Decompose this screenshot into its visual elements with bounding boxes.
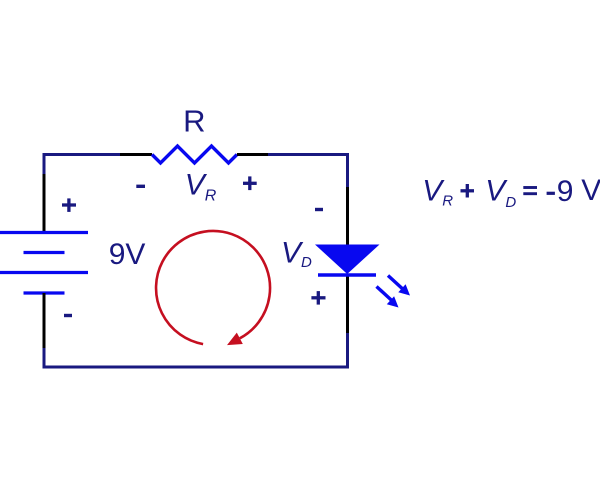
plus sign LED bottom bbox=[311, 291, 325, 305]
svg-text:9V: 9V bbox=[109, 238, 146, 271]
wire bottom navy with corners bbox=[44, 332, 348, 367]
equation plus sign bbox=[461, 184, 475, 198]
battery B1 short plate bottom bbox=[24, 291, 65, 294]
LED D1 triangle bbox=[315, 245, 380, 275]
equation minus sign bbox=[547, 192, 555, 195]
LED D1 light arrow 1 shaft bbox=[388, 276, 403, 290]
LED D1 cathode bar bbox=[318, 273, 376, 276]
svg-text:VD: VD bbox=[485, 175, 516, 211]
minus sign battery bottom bbox=[64, 314, 72, 317]
LED D1 light arrow 1 head bbox=[398, 284, 410, 295]
KVL loop red arc bbox=[156, 231, 270, 344]
LED D1 light arrow 2 head bbox=[387, 296, 399, 307]
wire top-right navy segment bbox=[268, 155, 348, 189]
resistor R1 zigzag bbox=[152, 146, 237, 163]
wire top black segment left of resistor bbox=[120, 153, 152, 156]
wire right black segment above LED bbox=[346, 187, 349, 245]
battery B1 long plate top bbox=[0, 231, 88, 234]
svg-text:9: 9 bbox=[557, 175, 574, 208]
plus sign battery top bbox=[62, 198, 76, 212]
wire top black segment right of resistor bbox=[237, 153, 269, 156]
wire left black segment below battery bbox=[43, 293, 46, 349]
svg-text:VR: VR bbox=[185, 169, 217, 205]
battery B1 short plate upper bbox=[24, 251, 65, 254]
svg-text:V: V bbox=[581, 174, 600, 207]
svg-text:VR: VR bbox=[422, 175, 453, 210]
minus sign LED top bbox=[315, 208, 323, 211]
battery B1 long plate lower bbox=[0, 271, 88, 274]
svg-text:VD: VD bbox=[281, 237, 312, 272]
wire left black segment above battery bbox=[43, 174, 46, 233]
wire right black segment below LED bbox=[346, 276, 349, 333]
KVL loop arrowhead bbox=[227, 333, 243, 346]
wire top-left navy segment bbox=[44, 155, 121, 176]
equation equals sign bbox=[523, 188, 537, 194]
LED D1 light arrow 2 shaft bbox=[377, 287, 392, 301]
minus sign resistor left bbox=[136, 185, 145, 188]
svg-text:R: R bbox=[183, 104, 205, 139]
plus sign resistor right bbox=[243, 176, 257, 190]
